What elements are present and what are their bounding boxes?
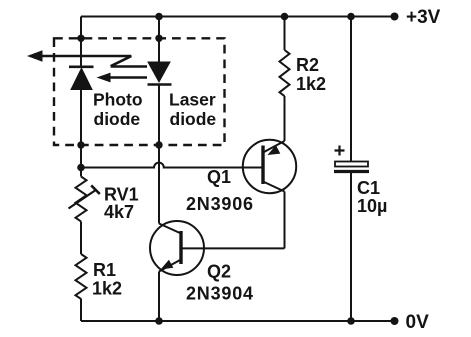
svg-text:diode: diode bbox=[170, 109, 217, 129]
terminal dot 0V bbox=[391, 317, 399, 325]
junction dot laser/dashed top bbox=[155, 35, 162, 42]
capacitor C1 top plate bbox=[335, 162, 368, 167]
wire R1 to bottom rail bbox=[80, 299, 82, 321]
wire R2 to Q1 emitter bbox=[284, 96, 286, 141]
wire C1 top bbox=[350, 17, 352, 162]
junction dot node A left bbox=[77, 164, 85, 172]
junction dot laser/top rail bbox=[155, 13, 163, 21]
wire RV1 to R1 bbox=[80, 222, 82, 255]
svg-text:R2: R2 bbox=[296, 55, 319, 75]
wire mid node to Q2 collector bbox=[158, 168, 160, 224]
svg-text:2N3906: 2N3906 bbox=[186, 194, 254, 214]
wire laser column top bbox=[158, 17, 160, 63]
capacitor C1 bottom plate bbox=[334, 170, 369, 173]
Q1 base bar bbox=[261, 146, 264, 185]
svg-text:Laser: Laser bbox=[169, 90, 216, 110]
terminal dot +3V bbox=[391, 13, 399, 21]
emitted beam arrowhead bbox=[27, 50, 43, 61]
svg-text:10µ: 10µ bbox=[357, 196, 387, 216]
Q2 emitter arrowhead (NPN, pointing out) bbox=[161, 260, 174, 270]
junction dot R2/top rail bbox=[281, 13, 289, 21]
wire node to Q1 base bbox=[81, 163, 263, 168]
wire R2 top bbox=[284, 17, 286, 51]
svg-text:R1: R1 bbox=[93, 260, 116, 280]
RV1 wiper arrow bbox=[69, 190, 97, 209]
junction dot photodiode/dashed top bbox=[77, 35, 84, 42]
svg-text:0V: 0V bbox=[406, 312, 430, 333]
resistor R1 zigzag bbox=[76, 254, 87, 299]
wire bottom rail 0V bbox=[81, 320, 395, 322]
wire left column photodiode branch bbox=[80, 17, 82, 67]
junction dot C1/top rail bbox=[347, 13, 355, 21]
Q1 collector lead bbox=[263, 182, 285, 192]
resistor R2 zigzag bbox=[280, 50, 290, 96]
transistor Q1 circle bbox=[243, 140, 296, 193]
svg-text:Q2: Q2 bbox=[207, 262, 231, 282]
junction dot Q2 emitter/bottom rail bbox=[155, 317, 163, 325]
wire Q1 collector down bbox=[284, 192, 286, 249]
laser diode cathode bar bbox=[148, 83, 172, 86]
Q2 base bar bbox=[179, 231, 182, 264]
wire Q2 emitter to bottom rail bbox=[158, 272, 160, 322]
svg-text:Photo: Photo bbox=[93, 90, 143, 110]
wire photodiode to mid node bbox=[80, 90, 82, 177]
Q1 emitter arrowhead (PNP, pointing into base) bbox=[268, 145, 281, 155]
wire Q1 collector to Q2 base bbox=[181, 247, 285, 249]
reflected beam arrow bbox=[108, 76, 147, 79]
laser diode triangle bbox=[148, 62, 170, 82]
Q2 emitter lead bbox=[159, 260, 181, 272]
junction dot C1/bottom rail bbox=[347, 317, 355, 325]
svg-text:4k7: 4k7 bbox=[104, 202, 134, 222]
dashed optical module box bbox=[54, 38, 225, 145]
svg-text:2N3904: 2N3904 bbox=[186, 284, 254, 304]
svg-text:+3V: +3V bbox=[406, 7, 441, 28]
svg-text:1k2: 1k2 bbox=[296, 74, 326, 94]
wire top rail +3V bbox=[81, 16, 395, 18]
junction dot laser/dashed bottom bbox=[155, 141, 162, 148]
photodiode triangle bbox=[71, 68, 92, 89]
transistor Q2 circle bbox=[150, 221, 204, 275]
wire laser diode to mid node bbox=[158, 85, 160, 168]
reflected beam arrowhead bbox=[97, 73, 111, 83]
svg-text:C1: C1 bbox=[357, 178, 380, 198]
svg-text:diode: diode bbox=[94, 109, 141, 129]
svg-text:Q1: Q1 bbox=[207, 167, 231, 187]
photodiode cathode bar bbox=[69, 66, 94, 69]
junction dot photodiode/dashed bottom bbox=[77, 141, 84, 148]
capacitor C1 plus sign bbox=[335, 146, 345, 156]
Q2 collector lead bbox=[159, 224, 181, 234]
Q1 emitter lead bbox=[263, 141, 285, 153]
emitted beam zigzag arrow bbox=[41, 56, 147, 67]
svg-text:1k2: 1k2 bbox=[92, 279, 122, 299]
wire C1 bottom bbox=[350, 172, 352, 321]
resistor RV1 zigzag bbox=[76, 177, 87, 222]
